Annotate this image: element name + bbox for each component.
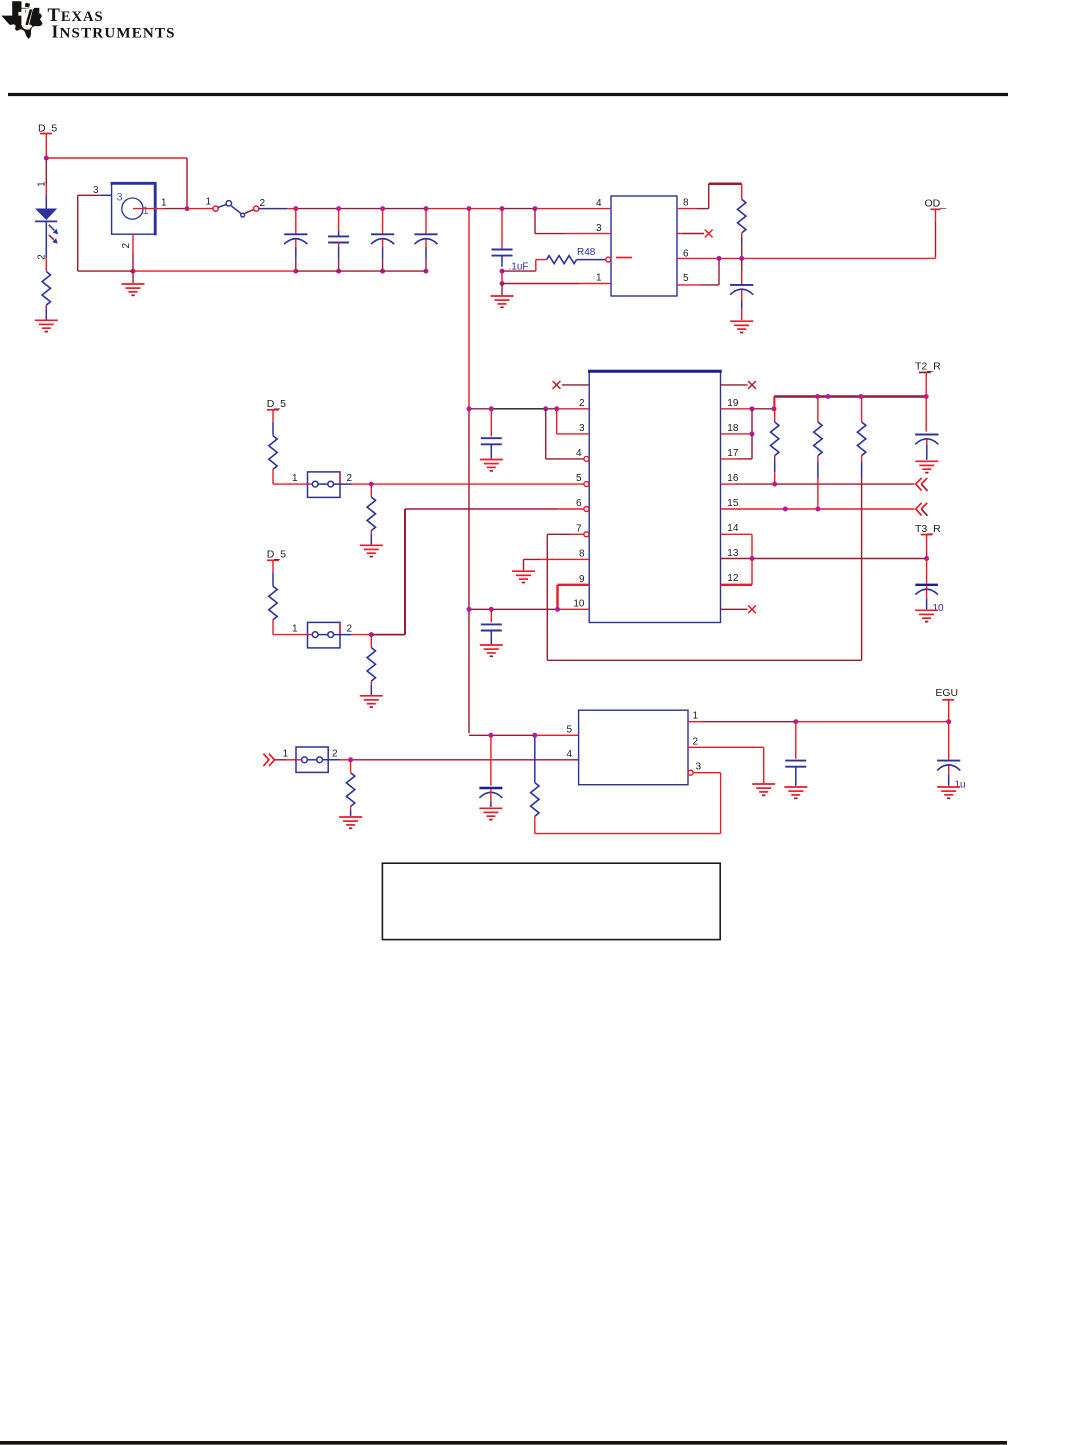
- junction top bus at opamp pin3 branch: [533, 206, 538, 211]
- wire pin 7 loop down: [547, 534, 584, 660]
- wire branch down to jack pin 1: [186, 158, 188, 209]
- resistor R-adj: [531, 738, 539, 834]
- wire feedback loop to pin 3: [535, 773, 721, 834]
- junction at jumper output: [369, 632, 374, 637]
- svg-text:1: 1: [596, 273, 602, 284]
- junction pin16 at R-term1: [772, 482, 777, 487]
- wire net pin2 segments: [469, 408, 589, 410]
- header rule: [8, 93, 1008, 96]
- wire pullup to jumper pin 1: [273, 634, 308, 636]
- junction bottom bus at C1: [293, 269, 298, 274]
- capacitor C3: [371, 209, 394, 272]
- resistor R-out pullup: [738, 184, 746, 259]
- junction at J3 output: [348, 757, 353, 762]
- svg-text:19: 19: [727, 398, 739, 409]
- ground below C5: [480, 460, 503, 471]
- power flag D_5 (jumper): [267, 549, 286, 561]
- svg-text:2: 2: [693, 736, 699, 747]
- junction bus extra: [826, 394, 831, 399]
- svg-text:1: 1: [292, 473, 298, 484]
- resistor R-term3: [857, 397, 865, 661]
- op-amp inverting mark: [616, 257, 632, 259]
- wire pin 8 to ground: [524, 559, 590, 570]
- wire jumper pin 2 out: [334, 483, 372, 485]
- junction pin19 at pin18 branch: [750, 406, 755, 411]
- svg-text:2: 2: [347, 473, 353, 484]
- resistor R-term2: [814, 397, 822, 510]
- capacitor C7: [479, 735, 502, 807]
- junction C-bypass bottom: [500, 269, 505, 274]
- svg-text:3: 3: [117, 192, 123, 204]
- wire pin 1 of op-amp: [502, 271, 611, 295]
- wire T2_R drop: [925, 372, 927, 431]
- ground below C-out: [730, 321, 753, 332]
- wire pin 14 branch: [721, 534, 753, 558]
- svg-text:9: 9: [579, 574, 585, 585]
- svg-text:2: 2: [121, 243, 132, 249]
- svg-text:1: 1: [283, 748, 289, 759]
- capacitor C6: [481, 609, 502, 644]
- wire D_5 node to jack branch: [46, 157, 187, 159]
- wire pin 9 bold jog: [558, 585, 590, 610]
- ground below C9: [937, 787, 960, 798]
- junction output and pin 5: [717, 256, 722, 261]
- junction jack pin1 / D_5 branch: [185, 206, 190, 211]
- svg-text:4: 4: [576, 448, 582, 459]
- ground below C-T2R: [915, 461, 938, 472]
- ground at pin 8: [512, 571, 535, 582]
- resistor R-pulldown: [367, 484, 375, 544]
- IC U2 body: [588, 371, 722, 622]
- svg-text:1: 1: [37, 181, 48, 187]
- svg-text:10: 10: [933, 603, 945, 614]
- junction pin15 at R-term2: [815, 507, 820, 512]
- wire top bus branch to op-amp pin 3: [535, 209, 611, 234]
- ground below J3 pulldown: [339, 817, 362, 828]
- wire C-bypass node to R48: [502, 260, 547, 272]
- resistor R-pulldown: [367, 635, 375, 695]
- svg-text:3: 3: [596, 223, 602, 234]
- wire jumper pin 2 out: [334, 634, 372, 636]
- resistor R-LED: [42, 272, 50, 320]
- off-page connector arrow pin15: [916, 503, 928, 516]
- svg-text:15: 15: [727, 498, 739, 509]
- svg-text:3: 3: [93, 185, 99, 196]
- wire arrow to jumper J3: [275, 759, 287, 761]
- connector J-DC barrel jack: [111, 182, 157, 235]
- junction top bus at C4: [424, 206, 429, 211]
- svg-text:T2_R: T2_R: [915, 361, 941, 373]
- off-page connector arrow pin16: [916, 478, 928, 491]
- svg-text:7: 7: [576, 523, 582, 534]
- ground at U3 pin 2: [752, 784, 775, 795]
- ground below C-T3R: [915, 610, 938, 621]
- capacitor C-bypass .1uF: [492, 209, 513, 267]
- junction on pin15 net: [783, 507, 788, 512]
- resistor R48: [547, 256, 606, 264]
- power flag EGU: [935, 687, 958, 700]
- bubble on pin 4: [584, 456, 589, 461]
- wire pin 13 net to T3_R: [721, 558, 927, 560]
- wire stub to jack ground: [132, 271, 134, 283]
- wire OD_ drop: [935, 209, 937, 258]
- capacitor C8: [785, 722, 806, 786]
- power flag D_5 (top left): [38, 123, 57, 135]
- svg-text:5: 5: [576, 473, 582, 484]
- svg-text:2: 2: [579, 398, 585, 409]
- wire jack pin 3 to ground bus: [78, 195, 112, 271]
- jumper J header: [308, 472, 341, 498]
- capacitor C4: [414, 209, 437, 272]
- junction jack pin 2 at ground bus: [131, 269, 136, 274]
- svg-text:12: 12: [727, 573, 739, 584]
- junction top bus at C2: [336, 206, 341, 211]
- bubble on U3 pin 3: [688, 770, 693, 775]
- junction top bus at C3: [380, 206, 385, 211]
- ground below C7: [479, 808, 502, 819]
- wire pin 17 branch: [721, 434, 753, 459]
- svg-text:1: 1: [292, 624, 298, 635]
- svg-text:EGU: EGU: [935, 687, 958, 699]
- junction pin19 at bus drop: [772, 406, 777, 411]
- power flag T3_R: [915, 523, 941, 535]
- switch SW1: [213, 201, 259, 217]
- capacitor C-T3R 10: [915, 559, 938, 610]
- TI logo bug: [2, 1, 43, 39]
- wire op-amp pin 8 up and over: [677, 184, 742, 209]
- bubble on pin 7: [584, 532, 589, 537]
- junction pin2 net at C5: [489, 406, 494, 411]
- ground below pulldown: [360, 545, 383, 556]
- junction main branch / pin2 net: [467, 406, 472, 411]
- svg-text:17: 17: [727, 448, 739, 459]
- bubble at op-amp inverting input: [606, 257, 611, 262]
- svg-text:2: 2: [332, 748, 338, 759]
- jumper J header: [308, 622, 341, 648]
- junction top bus at main branch: [467, 206, 472, 211]
- capacitor C5: [481, 409, 502, 459]
- svg-text:5: 5: [567, 724, 573, 735]
- svg-text:R48: R48: [577, 247, 596, 258]
- capacitor C9 1u: [937, 722, 960, 786]
- junction pin5 net at C7: [488, 733, 493, 738]
- svg-text:13: 13: [727, 548, 739, 559]
- ground below pulldown: [360, 696, 383, 707]
- resistor R-pullup: [269, 410, 277, 484]
- op-amp U1 body: [611, 196, 677, 296]
- junction pin10 at C6: [489, 607, 494, 612]
- junction at D_5 node: [44, 156, 49, 161]
- wire pin 10 net: [469, 608, 589, 610]
- wire pin 12 bold branch: [721, 559, 753, 585]
- junction output and pullup: [739, 256, 744, 261]
- wire jack pin 1 to switch: [155, 208, 187, 210]
- off-page connector arrow input: [263, 754, 274, 766]
- svg-text:6: 6: [576, 498, 582, 509]
- wire op-amp pin 5 to output: [677, 258, 719, 285]
- wire jumper J1 to pin 5: [371, 483, 584, 485]
- wire op-amp output OD_ net: [677, 257, 936, 259]
- wire J3 pin 2 to regulator pin 4: [323, 759, 579, 761]
- junction top bus at C1: [293, 206, 298, 211]
- svg-text:5: 5: [683, 273, 689, 284]
- svg-text:4: 4: [567, 749, 573, 760]
- svg-text:2: 2: [260, 198, 266, 209]
- svg-text:1: 1: [693, 711, 699, 722]
- svg-text:3: 3: [579, 423, 585, 434]
- bubble on pin 6: [584, 507, 589, 512]
- junction EGU at C8: [793, 719, 798, 724]
- ground below jack: [122, 284, 145, 295]
- junction pin18: [750, 431, 755, 436]
- junction at jumper output: [369, 482, 374, 487]
- junction top bus at C-bypass: [500, 206, 505, 211]
- svg-text:8: 8: [579, 548, 585, 559]
- capacitor C-out: [730, 258, 753, 320]
- svg-text:4: 4: [596, 198, 602, 209]
- svg-text:16: 16: [727, 473, 739, 484]
- junction pin5 net at R-adj: [532, 733, 537, 738]
- svg-text:1: 1: [143, 205, 149, 217]
- svg-text:10: 10: [573, 598, 585, 609]
- junction at pin 1 branch: [500, 281, 505, 286]
- svg-text:1: 1: [206, 196, 212, 207]
- junction T3_R at pin13 net: [924, 556, 929, 561]
- wire main vertical branch: [468, 209, 470, 733]
- wire U3 pin 1 EGU net: [688, 721, 949, 723]
- wire pin 18 branch: [721, 409, 753, 434]
- svg-text:1: 1: [161, 197, 167, 208]
- resistor R-pullup: [269, 560, 277, 634]
- power flag D_5 (jumper): [267, 398, 286, 410]
- bold bus T2_R rail: [774, 395, 926, 398]
- footer rule: [0, 1441, 1007, 1445]
- ground below C-bypass: [491, 296, 514, 307]
- wire D_5 vertical stub: [45, 134, 47, 159]
- junction pin10 at main branch: [467, 607, 472, 612]
- jumper J3 header: [296, 747, 328, 772]
- resistor R-pulldown J3: [346, 760, 354, 816]
- capacitor C2: [328, 209, 349, 272]
- junction EGU at C9: [946, 719, 951, 724]
- ground below C8: [784, 787, 807, 798]
- junction pin2 net at pin3 branch: [554, 406, 559, 411]
- junction bottom bus at C2: [336, 269, 341, 274]
- capacitor C1: [284, 209, 307, 272]
- resistor R-term1: [771, 397, 779, 485]
- wire pin 3 branch: [557, 409, 590, 434]
- bubble on pin 5: [584, 482, 589, 487]
- svg-text:D_5: D_5: [267, 549, 286, 561]
- TI logotype TEXAS INSTRUMENTS: [48, 6, 176, 42]
- wire pin 19 net: [721, 397, 775, 409]
- power flag OD_: [925, 198, 947, 210]
- wire U3 pin 2 to ground: [688, 747, 764, 783]
- junction bus at R-term3 top: [858, 394, 863, 399]
- LED D1: [35, 196, 58, 259]
- junction bus at T2_R drop: [924, 394, 929, 399]
- wire pin 15 net to off-page: [721, 508, 915, 510]
- wire D_5 node down to LED: [45, 158, 47, 196]
- no-connect X top-right of U2: [721, 384, 748, 386]
- svg-text:14: 14: [727, 523, 739, 534]
- svg-text:18: 18: [727, 423, 739, 434]
- svg-text:D_5: D_5: [267, 398, 286, 410]
- junction bus at R-term2 top: [815, 394, 820, 399]
- svg-text:2: 2: [347, 624, 353, 635]
- wire pin 4 branch: [546, 409, 584, 459]
- no-connect X on op-amp pin 7: [677, 233, 704, 235]
- ground below C6: [480, 645, 503, 656]
- junction pin2 net at pin4 branch: [543, 406, 548, 411]
- wire pin 16 net to off-page: [721, 483, 915, 485]
- junction bottom bus at C4: [424, 269, 429, 274]
- svg-text:8: 8: [683, 198, 689, 209]
- no-connect X bottom-right of U2: [721, 608, 748, 610]
- junction pin10 at pin9 jog: [555, 607, 560, 612]
- title block frame: [382, 863, 720, 939]
- svg-text:OD_: OD_: [925, 198, 947, 210]
- wire main branch to regulator pin 5: [469, 734, 579, 736]
- svg-text:3: 3: [696, 761, 702, 772]
- junction pin13 at pin14 branch: [750, 556, 755, 561]
- no-connect X top-left of U2: [562, 384, 589, 386]
- wire switch pin 2 to cap bus: [259, 208, 296, 210]
- bold wire jumper J2 to pin6 riser: [371, 509, 405, 635]
- wire pullup to jumper pin 1: [273, 483, 308, 485]
- wire EGU drop: [948, 700, 950, 722]
- wire bottom ground bus: [78, 270, 426, 272]
- wire T3_R drop: [926, 535, 928, 559]
- wire jack pin 2 down: [132, 234, 134, 271]
- wire jumper J2 to pin 6: [405, 508, 584, 510]
- wire pin7 link under U2: [547, 659, 861, 661]
- wire LED to resistor: [45, 258, 47, 271]
- wire top bus over capacitor bank: [296, 208, 611, 210]
- ground below LED resistor: [35, 320, 58, 331]
- capacitor C-T2R: [915, 435, 938, 460]
- wire junction to switch pin 1: [187, 208, 213, 210]
- junction bottom bus at C3: [380, 269, 385, 274]
- power flag T2_R: [915, 361, 941, 373]
- svg-text:1u: 1u: [955, 779, 966, 790]
- svg-text:T3_R: T3_R: [915, 523, 941, 535]
- regulator U3 body: [579, 710, 688, 785]
